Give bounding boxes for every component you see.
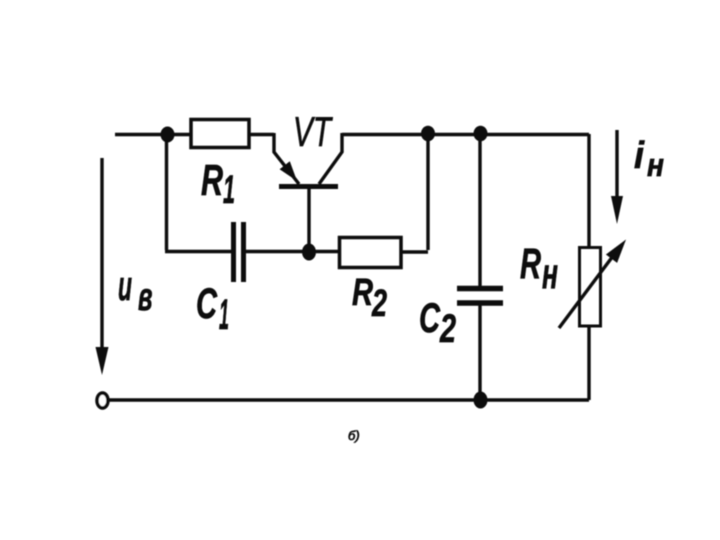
- svg-text:u: u: [118, 262, 132, 309]
- svg-text:VT: VT: [293, 108, 333, 155]
- svg-text:R: R: [352, 272, 373, 314]
- svg-text:i: i: [634, 135, 645, 177]
- svg-text:C: C: [196, 280, 218, 328]
- svg-text:н: н: [647, 147, 664, 183]
- svg-text:1: 1: [219, 291, 229, 339]
- svg-text:б): б): [348, 428, 360, 443]
- svg-text:C: C: [419, 294, 440, 341]
- svg-text:н: н: [542, 250, 558, 298]
- svg-text:1: 1: [223, 168, 235, 212]
- svg-text:в: в: [138, 275, 153, 319]
- svg-text:2: 2: [371, 283, 387, 325]
- svg-text:R: R: [201, 156, 223, 205]
- svg-text:2: 2: [439, 307, 456, 351]
- svg-text:R: R: [520, 240, 541, 288]
